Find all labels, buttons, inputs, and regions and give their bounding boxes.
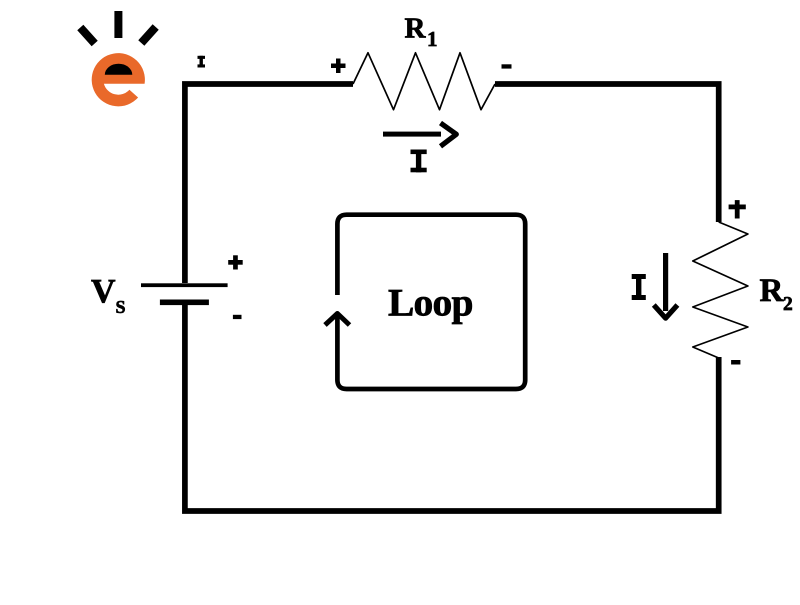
logo: left ray <box>77 25 97 46</box>
svg-text:Loop: Loop <box>388 281 473 325</box>
polarity - at R2 bottom <box>731 360 740 365</box>
polarity - at R1 right <box>502 64 512 68</box>
polarity + at battery top <box>228 255 243 269</box>
resistor R2 zigzag <box>693 222 748 358</box>
logo: middle ray <box>114 11 122 38</box>
current arrow I (down) beside R2 <box>654 253 678 318</box>
polarity + at R2 top <box>729 200 746 218</box>
label I beside down arrow <box>632 274 646 300</box>
svg-text:1: 1 <box>427 27 438 51</box>
polarity + at R1 left <box>331 59 346 74</box>
svg-text:2: 2 <box>783 294 793 315</box>
svg-text:R: R <box>760 273 785 309</box>
loop direction arrowhead (up) <box>325 314 350 326</box>
current arrow I (right) under R1 <box>383 123 456 146</box>
voltage source VS battery bottom plate <box>160 300 209 306</box>
node label I (current at top-left) <box>198 56 206 68</box>
wire top-right and right-upper rail <box>495 84 719 222</box>
resistor R1 zigzag <box>353 53 495 110</box>
logo: right ray <box>138 24 158 45</box>
svg-text:V: V <box>91 273 116 310</box>
label I under arrow <box>411 150 427 173</box>
svg-text:S: S <box>116 297 126 317</box>
voltage source VS battery top plate <box>141 283 228 287</box>
wire top-left and left-upper rail <box>185 84 353 283</box>
wire right-lower, bottom and left-lower rail <box>185 303 719 511</box>
logo: orange letter e body <box>92 53 145 106</box>
loop box rounded rectangle with gap on left <box>337 215 525 389</box>
svg-text:R: R <box>405 12 427 44</box>
logo: black eyelid dome inside e <box>105 64 133 75</box>
polarity - at battery bottom <box>233 315 242 319</box>
